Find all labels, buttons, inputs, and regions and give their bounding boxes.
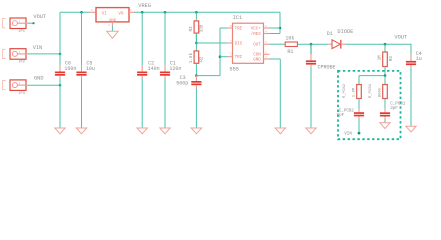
- wire R4 node link: [359, 76, 385, 85]
- resistor R2: [194, 51, 199, 63]
- node VIN end dot: [358, 132, 361, 135]
- node GND junction: [59, 84, 62, 87]
- svg-text:DIODE: DIODE: [337, 29, 353, 35]
- wire R_PCB1 to C_PCB1: [384, 99, 386, 109]
- label C1: [169, 61, 181, 72]
- svg-text:555: 555: [229, 66, 239, 72]
- ground under C4: [406, 126, 416, 132]
- label GND: [34, 75, 44, 81]
- svg-text:DIS: DIS: [235, 42, 243, 46]
- ground under C5: [76, 128, 86, 134]
- wire C1 vertical: [164, 12, 166, 128]
- svg-text:1.6k: 1.6k: [189, 53, 194, 64]
- label C5: [86, 61, 95, 72]
- svg-text:VI: VI: [102, 13, 108, 17]
- label 555: [229, 66, 239, 72]
- capacitor C_PCB2: [354, 109, 364, 120]
- label CPROBE: [318, 65, 336, 71]
- label DIODE: [337, 29, 353, 35]
- wire to VCC pin: [270, 27, 281, 29]
- IC1 pin DIS: [227, 40, 232, 43]
- svg-text:10k: 10k: [285, 36, 294, 42]
- wire rail to R3: [195, 12, 197, 21]
- wire C_PCB2 to VIN: [358, 119, 360, 133]
- svg-text:GND: GND: [34, 75, 44, 81]
- node R3 junction: [195, 11, 198, 14]
- label VREG: [138, 3, 151, 9]
- wire 555 GND: [270, 59, 281, 128]
- wire VREG rail: [134, 11, 280, 13]
- label R1: [285, 36, 294, 55]
- svg-text:160n: 160n: [64, 66, 76, 72]
- label R4: [377, 55, 394, 61]
- wire VIN to VI: [60, 11, 90, 13]
- regulator U1 body: [96, 8, 129, 23]
- wire JP3 to GND node: [27, 84, 60, 86]
- label R2: [189, 53, 204, 64]
- svg-text:D1: D1: [327, 31, 333, 37]
- wire R1 to diode: [297, 43, 328, 45]
- dashed probe box: [338, 71, 401, 139]
- ground under C3: [191, 128, 201, 134]
- node TRI junction: [219, 55, 222, 58]
- label C_PCB2: [337, 110, 355, 119]
- svg-text:JP2: JP2: [18, 61, 25, 65]
- svg-text:R_PCB2: R_PCB2: [343, 83, 347, 98]
- resistor R3: [194, 21, 199, 33]
- svg-text:140n: 140n: [148, 66, 160, 72]
- svg-text:VIN: VIN: [344, 133, 352, 137]
- wire to RES pin: [270, 33, 281, 35]
- svg-text:1M: 1M: [377, 55, 382, 61]
- wire C2 vertical: [141, 12, 143, 128]
- node VCC junction: [279, 27, 282, 30]
- wire R2 to C3 node: [195, 63, 197, 75]
- wire rail down to VCC: [279, 12, 281, 33]
- wire regulator GND: [111, 26, 113, 32]
- capacitor C6: [55, 65, 65, 78]
- wire VIN vertical: [59, 12, 61, 128]
- node VOUT end dot: [32, 22, 34, 24]
- label R_PCB1: [369, 83, 382, 98]
- ground under CPROBE: [306, 128, 316, 134]
- svg-text:VOUT: VOUT: [33, 14, 46, 20]
- svg-text:1u: 1u: [416, 56, 422, 62]
- node VIN junction: [59, 53, 62, 56]
- node CPROBE junction: [310, 43, 313, 46]
- label C4: [416, 51, 422, 62]
- label IC1: [233, 15, 243, 21]
- wire to TRE: [220, 27, 227, 29]
- capacitor C_PCB1: [380, 109, 390, 119]
- regulator U1 pin VI stub: [90, 9, 97, 12]
- svg-text:800k: 800k: [377, 87, 382, 97]
- svg-text:330: 330: [199, 24, 204, 32]
- connector JP2: [3, 49, 27, 65]
- svg-text:GND: GND: [253, 58, 261, 62]
- svg-text:IC1: IC1: [233, 15, 243, 21]
- svg-text:2: 2: [108, 24, 110, 27]
- IC1 pin OUT: [264, 41, 270, 44]
- wire C4 corner: [410, 44, 412, 127]
- label C_PCB1: [390, 103, 406, 111]
- svg-text:3pF: 3pF: [390, 107, 398, 111]
- connector JP1: [3, 18, 27, 34]
- svg-text:10u: 10u: [86, 66, 95, 72]
- capacitor C5: [76, 65, 86, 78]
- capacitor CPROBE: [306, 44, 316, 67]
- svg-text:VIN: VIN: [33, 45, 43, 51]
- svg-text:VO: VO: [118, 13, 124, 17]
- wire CPROBE to ground: [310, 68, 312, 129]
- wire to TRI: [220, 56, 227, 58]
- svg-text:R4: R4: [389, 56, 394, 62]
- label VIN net: [344, 133, 352, 137]
- ground under regulator: [107, 31, 118, 38]
- wire VOUT to R4: [384, 44, 386, 52]
- svg-text:R_PCB1: R_PCB1: [369, 83, 373, 98]
- svg-text:VREG: VREG: [138, 3, 151, 9]
- label C2: [148, 61, 160, 72]
- svg-text:TRI: TRI: [235, 56, 243, 60]
- svg-text:1.8M: 1.8M: [352, 87, 356, 97]
- label VOUT: [33, 14, 46, 20]
- node C3 junction: [195, 74, 198, 77]
- svg-text:C_PCB2: C_PCB2: [339, 110, 355, 114]
- ground under C6: [55, 128, 65, 134]
- label R_PCB2: [343, 83, 356, 98]
- node R_PCB1 junction: [384, 74, 387, 77]
- svg-text:/RES: /RES: [251, 32, 262, 37]
- ground under C_PCB1: [380, 123, 390, 129]
- svg-text:9pF: 9pF: [337, 114, 345, 118]
- svg-text:560p: 560p: [176, 81, 188, 87]
- regulator U1 pin VO stub: [129, 9, 135, 12]
- capacitor C4: [406, 55, 416, 68]
- wire diode to C4: [346, 43, 411, 45]
- label C3: [176, 75, 188, 86]
- wire R_PCB2 to C_PCB2: [358, 99, 360, 109]
- IC1 pin /RES: [264, 31, 270, 34]
- IC1 pin CON: [264, 51, 270, 54]
- regulator U1 pin GND stub: [108, 22, 112, 27]
- svg-text:CON: CON: [253, 54, 261, 58]
- wire R4 to R_PCB1: [384, 76, 386, 85]
- svg-text:3: 3: [130, 9, 132, 12]
- wire VOUT stub: [27, 22, 34, 24]
- label VOUT net: [394, 34, 407, 40]
- svg-text:1: 1: [91, 9, 93, 12]
- svg-text:OUT: OUT: [253, 43, 261, 47]
- svg-text:VCC+: VCC+: [251, 27, 262, 31]
- IC1 pin TRI: [227, 54, 232, 57]
- capacitor C1: [160, 65, 170, 78]
- node DIS junction: [195, 42, 198, 45]
- diode D1: [328, 40, 346, 49]
- node C5 junction: [80, 11, 83, 14]
- IC1 pin GND: [264, 56, 270, 59]
- svg-text:R3: R3: [189, 26, 194, 32]
- wire DIS horizontal: [196, 42, 227, 44]
- IC1 pin TRE: [227, 25, 232, 28]
- label C6: [64, 61, 76, 72]
- ground under C2: [137, 128, 147, 134]
- ground under 555: [275, 128, 285, 134]
- ground under C1: [160, 128, 170, 134]
- svg-text:JP1: JP1: [18, 30, 25, 34]
- wire C3 to ground: [195, 89, 197, 129]
- wire C3 node to TRI link: [196, 75, 220, 77]
- connector JP3: [3, 80, 27, 96]
- wire R3 to DIS node: [195, 33, 197, 43]
- IC1 pin VCC+: [264, 25, 270, 28]
- svg-text:CPROBE: CPROBE: [318, 65, 336, 71]
- capacitor C3: [191, 76, 201, 89]
- resistor R_PCB2: [357, 85, 362, 99]
- wire OUT to R1: [270, 43, 286, 45]
- svg-text:120n: 120n: [169, 66, 181, 72]
- svg-text:R1: R1: [287, 49, 293, 55]
- wire R4 down: [384, 67, 386, 76]
- capacitor C2: [137, 65, 147, 78]
- resistor R_PCB1: [383, 85, 388, 99]
- label VIN: [33, 45, 43, 51]
- wire TRE-TRI vertical: [219, 28, 221, 76]
- svg-text:JP3: JP3: [18, 92, 25, 96]
- svg-text:VOUT: VOUT: [394, 34, 407, 40]
- op-amp IC1 555 body: [233, 23, 264, 63]
- wire C_PCB1 to ground: [384, 119, 386, 123]
- resistor R1: [285, 42, 297, 47]
- wire R3 node to R2: [195, 43, 197, 51]
- node C1 junction: [164, 11, 167, 14]
- node C2 junction: [141, 11, 144, 14]
- svg-text:R2: R2: [199, 56, 204, 62]
- wire C5 vertical: [81, 12, 83, 128]
- node VOUT junction: [384, 43, 387, 46]
- label D1: [327, 31, 333, 37]
- resistor R4: [383, 52, 388, 67]
- svg-text:TRE: TRE: [235, 27, 243, 31]
- label R3: [189, 24, 204, 32]
- wire JP2 to VIN column: [27, 53, 60, 55]
